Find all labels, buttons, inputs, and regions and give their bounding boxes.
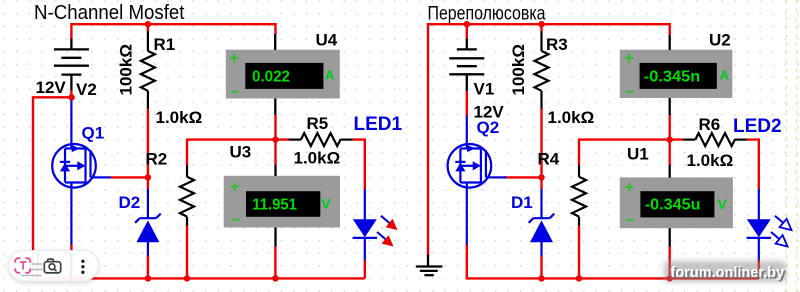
svg-text:Q2: Q2: [477, 118, 500, 137]
svg-text:U4: U4: [316, 31, 338, 50]
svg-text:11.951: 11.951: [252, 197, 297, 214]
resistor R2: [180, 165, 194, 226]
svg-text:LED1: LED1: [354, 114, 403, 135]
icon: selected text lines: [21, 264, 43, 276]
wire: Q1 gate to R1/D2 node: [111, 176, 149, 178]
svg-text:forum.onliner.by: forum.onliner.by: [671, 265, 785, 281]
wire: middle rail to R2 and to R5 lead: [187, 140, 289, 166]
MOSFET Q1: [52, 116, 111, 245]
svg-text:0.022: 0.022: [252, 69, 290, 86]
resistor R1: [141, 31, 155, 108]
svg-text:Q1: Q1: [82, 124, 105, 143]
svg-text:V: V: [718, 196, 728, 212]
wire: gate node to D1 top: [540, 177, 542, 189]
wire: LED1 bottom to rail: [364, 260, 366, 278]
svg-text:-0.345u: -0.345u: [645, 197, 701, 214]
svg-text:100kΩ: 100kΩ: [117, 44, 136, 95]
wire: node to U1 top: [669, 140, 671, 165]
wire: battery to left edge and down: [33, 97, 71, 279]
svg-text:U1: U1: [627, 145, 649, 164]
junction node: top rail / battery V1: [464, 21, 470, 27]
wire: R2 bottom to rail: [186, 226, 188, 279]
junction node: R2 at bottom rail: [184, 275, 190, 281]
junction node: gate / R1 / D2: [145, 174, 151, 180]
junction node: middle rail / U1 / U2: [667, 136, 673, 142]
zener diode D2: [135, 189, 161, 256]
wire: D2 bottom to rail: [147, 256, 149, 279]
wire: gate node to D2 top: [147, 177, 149, 189]
wire: Q2 gate to R3/D1 node: [504, 176, 542, 178]
junction node: top rail / R3: [538, 21, 544, 27]
svg-text:V2: V2: [76, 80, 97, 99]
svg-text:V: V: [321, 195, 331, 211]
resistor R5: [289, 133, 353, 146]
junction node: middle rail / U3 / U4: [272, 136, 278, 142]
svg-text:R2: R2: [146, 150, 168, 169]
wire: U4 bottom to middle node: [274, 115, 276, 140]
watermark forum.onliner.by: [664, 261, 786, 283]
LED2: [747, 189, 771, 260]
wire: battery V1 top lead: [466, 24, 468, 39]
voltmeter U3: [224, 165, 340, 247]
svg-text:1.0kΩ: 1.0kΩ: [687, 151, 734, 170]
svg-text:V1: V1: [474, 80, 495, 99]
junction node: U3 at bottom rail: [272, 275, 278, 281]
wire: R6 right lead corner down to LED2: [747, 140, 759, 189]
ground: [416, 255, 443, 276]
svg-text:D1: D1: [511, 193, 533, 212]
svg-text:A: A: [720, 68, 730, 83]
LED2 light rays (off, blue open arrows): [775, 216, 784, 223]
svg-text:D2: D2: [119, 193, 141, 212]
junction node: D1 at bottom rail: [538, 275, 544, 281]
wire: U3 bottom to rail: [274, 246, 276, 278]
sheet border dashed yellow line 2: [796, 0, 798, 292]
wire: LED2 bottom to rail: [758, 260, 760, 278]
wire: Q1 drain blue lead from battery node: [70, 97, 72, 116]
svg-text:N-Channel Mosfet: N-Channel Mosfet: [34, 2, 185, 24]
wire: R3 bottom to gate node: [540, 108, 542, 177]
junction node: battery bottom: [68, 94, 74, 100]
svg-text:1.0kΩ: 1.0kΩ: [156, 108, 203, 127]
wire: top rail with left corner down to ground: [428, 24, 670, 255]
wire: top rail to R3: [540, 24, 542, 31]
icon: kebab menu dots: [81, 260, 84, 263]
wire: battery bottom red stub: [70, 90, 72, 98]
wire: top rail with battery V2 top lead: [71, 24, 275, 39]
wire: U2 bottom to middle node: [669, 115, 671, 140]
junction node: gate / R3 / D1: [538, 174, 544, 180]
wire: top rail to R1: [147, 24, 149, 31]
battery V2: [54, 39, 89, 91]
svg-text:1.0kΩ: 1.0kΩ: [294, 149, 341, 168]
voltmeter U1: [620, 165, 733, 247]
junction node: top rail / R1: [145, 21, 151, 27]
svg-text:LED2: LED2: [733, 116, 782, 137]
svg-text:R3: R3: [546, 35, 568, 54]
wire: U1 bottom to rail: [669, 246, 671, 278]
svg-text:R6: R6: [699, 115, 721, 134]
junction node: U1 at bottom rail: [667, 275, 673, 281]
ammeter U4: [226, 34, 340, 115]
svg-text:-0.345n: -0.345n: [644, 69, 701, 86]
LED1 light rays (lit, red arrows): [381, 216, 390, 223]
UI toolbar pill: [9, 251, 98, 282]
svg-text:U3: U3: [230, 143, 252, 162]
svg-text:100kΩ: 100kΩ: [509, 44, 528, 95]
wire: R1 bottom to gate node: [147, 108, 149, 177]
resistor R3: [535, 31, 549, 108]
svg-text:R4: R4: [538, 150, 560, 169]
wire: bottom rail left circuit: [33, 277, 365, 279]
resistor R4: [572, 165, 586, 226]
wire: R4 bottom to rail: [578, 226, 580, 279]
junction node: R4 at bottom rail: [576, 275, 582, 281]
wire: middle rail to R4 and to R6 lead: [579, 140, 683, 166]
junction node: Q1 source at bottom rail: [68, 275, 74, 281]
battery V1 (reversed polarity): [449, 39, 484, 91]
wire: R5 right lead corner down to LED1: [352, 140, 365, 189]
svg-text:A: A: [325, 68, 335, 83]
svg-text:12V: 12V: [36, 78, 67, 97]
resistor R6: [683, 133, 747, 146]
svg-text:R5: R5: [307, 114, 329, 133]
sheet border dashed yellow line 1: [786, 0, 788, 292]
junction node: D2 at bottom rail: [145, 275, 151, 281]
icon: camera search: [44, 259, 60, 273]
MOSFET Q2: [448, 116, 507, 245]
LED1: [353, 189, 377, 260]
icon: select-text brackets: [15, 258, 30, 273]
svg-text:U2: U2: [709, 31, 731, 50]
wire: node to U3 top: [274, 140, 276, 165]
ammeter U2: [620, 35, 733, 115]
svg-text:1.0kΩ: 1.0kΩ: [548, 108, 595, 127]
wire: battery V1 bottom to Q2 drain: [466, 91, 468, 117]
wire: D1 bottom to rail: [540, 256, 542, 279]
wire: Q1 source to bottom rail: [70, 244, 72, 278]
wire: Q2 source down, bottom rail: [467, 244, 759, 278]
zener diode D1: [529, 189, 555, 256]
svg-text:R1: R1: [154, 35, 176, 54]
svg-text:Переполюсовка: Переполюсовка: [428, 4, 546, 25]
